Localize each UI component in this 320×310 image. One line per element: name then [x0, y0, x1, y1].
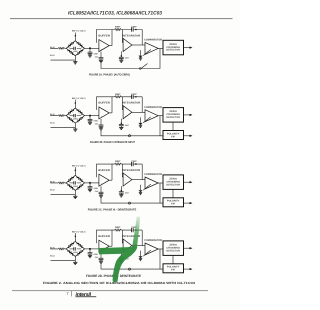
capacitor C1 junction to ground (row 3) [89, 183, 91, 187]
svg-text:IN LO: IN LO [50, 255, 55, 258]
svg-text:RINT: RINT [115, 93, 121, 96]
svg-text:CREF: CREF [94, 120, 99, 123]
capacitor CINT on top rail (row 3) [132, 162, 134, 166]
wire comparator feedback (row 1) [101, 48, 160, 68]
header rule [10, 18, 233, 19]
capacitor CAZ below buffer (row 2) [100, 119, 102, 125]
wire integrator input drop (row 3) [121, 164, 124, 177]
wire comparator feedback (row 3) [101, 183, 160, 203]
wire to reference (row 1) [74, 33, 76, 41]
wire IN HI input (row 2) [50, 115, 66, 117]
node top rail junction dot (row 2) [135, 96, 137, 98]
green marker digit 7 [99, 216, 140, 282]
svg-text:ZERO: ZERO [169, 244, 177, 247]
svg-text:IN LO: IN LO [50, 121, 55, 124]
wire bridge to buffer (row 1) [85, 47, 99, 49]
wire bridge to buffer (row 3) [85, 182, 99, 184]
capacitor CINT on top rail (row 4) [132, 228, 134, 232]
block zero crossing detector (row 2) [163, 108, 184, 123]
capacitor CREF inside bridge (row 2) [70, 115, 82, 117]
svg-text:IN LO: IN LO [50, 189, 55, 192]
svg-text:F/F: F/F [171, 203, 176, 206]
ground at comparator input (row 4) [138, 256, 142, 258]
svg-text:CREF: CREF [73, 185, 78, 188]
wire ZCD output arrow (row 3) [184, 181, 192, 183]
wire integrator input drop (row 1) [121, 30, 124, 43]
wire ZCD to polarity FF (row 4) [160, 255, 173, 269]
svg-text:FIGURE 2A. PHASE I (AUTO-ZERO: FIGURE 2A. PHASE I (AUTO-ZERO) [89, 74, 130, 77]
wire ZCD output arrow (row 2) [184, 114, 192, 116]
capacitor C2 below integrator (row 1) [121, 55, 123, 57]
node junction dot (row 3) [89, 182, 91, 184]
svg-text:CROSSING: CROSSING [166, 46, 180, 49]
svg-text:CROSSING: CROSSING [166, 113, 180, 116]
wire buffer output (row 1) [109, 45, 112, 47]
wire IN HI input (row 3) [50, 182, 66, 184]
wire bridge to buffer (row 2) [85, 115, 99, 117]
ground below C1 (row 3) [88, 190, 92, 192]
capacitor CREF inside bridge (row 4) [70, 248, 82, 250]
switch bridge SW1-SW4 diamond (row 4) [66, 241, 84, 256]
ground below bridge (row 1) [73, 62, 77, 64]
svg-text:INTEGRATOR: INTEGRATOR [122, 102, 140, 105]
wire top rail (row 3) [112, 164, 142, 180]
node junction dot (row 2) [89, 115, 91, 117]
svg-text:CINT: CINT [131, 160, 137, 163]
svg-text:INTEGRATOR: INTEGRATOR [122, 34, 140, 37]
svg-text:COMPARATOR: COMPARATOR [144, 239, 162, 242]
switch SW-DE at comparator input (row 1) [143, 50, 151, 56]
svg-text:RINT: RINT [115, 226, 121, 229]
node junction dot (row 1) [89, 47, 91, 49]
wire comparator feedback (row 2) [101, 116, 160, 136]
capacitor CINT on top rail (row 1) [132, 27, 134, 31]
node REF terminal dot (row 1) [75, 35, 77, 37]
wire buffer output (row 3) [109, 179, 112, 181]
svg-text:FIGURE 2. ANALOG SECTION OF I: FIGURE 2. ANALOG SECTION OF ICL8052/ICL8… [43, 281, 195, 285]
svg-text:ICL8052A/ICL71C03, ICL8068A/IC: ICL8052A/ICL71C03, ICL8068A/ICL71C03 [68, 11, 162, 17]
svg-text:CREF: CREF [73, 251, 78, 254]
switch SW-IN on input wire (row 2) [58, 115, 64, 117]
node REF terminal dot (row 4) [75, 236, 77, 238]
svg-text:RINT: RINT [115, 160, 121, 163]
wire comparator feedback (row 4) [101, 249, 160, 269]
svg-text:F/F: F/F [171, 135, 176, 138]
svg-text:FIGURE 2B. PHASE II INTEGRATE: FIGURE 2B. PHASE II INTEGRATE INPUT [90, 141, 135, 144]
wire buffer feedback loop (row 3) [97, 164, 113, 180]
wire top rail (row 2) [112, 97, 142, 113]
svg-text:ZERO: ZERO [169, 43, 177, 46]
ground below C1 (row 2) [88, 122, 92, 124]
capacitor C2 below integrator (row 4) [121, 256, 123, 258]
wire integrator output to comparator (row 3) [132, 179, 145, 181]
wire buffer output (row 4) [109, 245, 112, 247]
switch SW-DE at comparator input (row 4) [143, 250, 151, 256]
wire buffer feedback loop (row 1) [97, 30, 113, 46]
ground below C1 (row 1) [88, 55, 92, 57]
capacitor CAZ below buffer (row 1) [100, 52, 102, 58]
wire integrator output to comparator (row 2) [132, 111, 145, 113]
ground below C1 (row 4) [88, 256, 92, 258]
block zero crossing detector (row 4) [163, 241, 184, 256]
svg-text:DETECTOR: DETECTOR [166, 49, 180, 52]
wire bridge to buffer (row 4) [85, 248, 99, 250]
capacitor CAZ below buffer (row 4) [100, 252, 102, 258]
footer divider bar [70, 291, 73, 297]
wire integrator output to comparator (row 1) [132, 44, 145, 46]
wire integrator input drop (row 2) [121, 97, 124, 110]
switch SW-IN on input wire (row 4) [58, 248, 64, 250]
resistor RINT (row 3) [115, 163, 122, 165]
svg-text:RINT: RINT [115, 26, 121, 29]
capacitor C1 junction to ground (row 4) [89, 249, 91, 253]
svg-text:BUFFER: BUFFER [98, 235, 110, 238]
svg-text:COMPARATOR: COMPARATOR [144, 173, 162, 176]
svg-text:CROSSING: CROSSING [166, 246, 180, 249]
switch bridge SW1-SW4 diamond (row 3) [66, 175, 84, 190]
svg-text:DETECTOR: DETECTOR [166, 249, 180, 252]
capacitor CAZ below buffer (row 3) [100, 186, 102, 192]
ground below bridge (row 2) [73, 129, 77, 131]
resistor RINT (row 1) [115, 29, 122, 31]
wire to reference (row 4) [74, 233, 76, 241]
svg-text:CREF: CREF [73, 50, 78, 53]
svg-text:CREF: CREF [94, 253, 99, 256]
svg-text:REF (+1 VOLT): REF (+1 VOLT) [72, 30, 86, 33]
wire integrator input drop (row 4) [121, 230, 124, 243]
wire to reference (row 3) [74, 167, 76, 175]
wire IN LO (row 2) [51, 123, 76, 129]
wire polarity FF output arrow (row 2) [184, 135, 192, 137]
resistor RINT (row 4) [115, 229, 122, 231]
wire top rail (row 1) [112, 30, 142, 46]
block zero crossing detector (row 1) [163, 40, 184, 55]
block zero crossing detector (row 3) [163, 175, 184, 190]
capacitor C1 junction to ground (row 2) [89, 116, 91, 120]
switch SW-DE at comparator input (row 3) [143, 184, 151, 190]
capacitor C2 below integrator (row 3) [121, 190, 123, 192]
node top rail junction dot (row 4) [135, 229, 137, 231]
svg-text:CINT: CINT [131, 26, 137, 29]
svg-text:BUFFER: BUFFER [98, 169, 110, 172]
wire comparator output (row 2) [158, 115, 163, 117]
wire IN HI input (row 1) [50, 47, 66, 49]
svg-text:REF (+1 VOLT): REF (+1 VOLT) [72, 164, 86, 167]
svg-text:COMPARATOR: COMPARATOR [144, 106, 162, 109]
svg-text:CROSSING: CROSSING [166, 180, 180, 183]
svg-text:POLARITY: POLARITY [167, 132, 180, 135]
wire integrator output to comparator (row 4) [132, 245, 145, 247]
switch on feedback wire (row 3) [128, 202, 130, 204]
switch on feedback wire (row 1) [141, 64, 148, 69]
wire buffer output (row 2) [109, 112, 112, 114]
wire comparator output (row 3) [158, 182, 163, 184]
svg-text:POLARITY: POLARITY [167, 266, 180, 269]
block polarity flip-flop (row 4) [163, 264, 184, 273]
node top rail junction dot (row 3) [135, 163, 137, 165]
wire IN LO (row 1) [51, 56, 76, 62]
capacitor C2 below integrator (row 2) [121, 122, 123, 124]
wire IN LO (row 3) [51, 190, 76, 196]
wire comparator output (row 4) [158, 248, 163, 250]
svg-text:REF (+1 VOLT): REF (+1 VOLT) [72, 230, 86, 233]
ground below bridge (row 3) [73, 196, 77, 198]
node REF terminal dot (row 2) [75, 102, 77, 104]
svg-text:CINT: CINT [131, 93, 137, 96]
svg-text:DETECTOR: DETECTOR [166, 116, 180, 119]
capacitor C1 junction to ground (row 1) [89, 48, 91, 52]
switch on feedback wire (row 4) [128, 268, 130, 270]
wire buffer feedback loop (row 2) [97, 97, 113, 113]
block polarity flip-flop (row 3) [163, 198, 184, 207]
svg-text:BUFFER: BUFFER [98, 34, 110, 37]
ground at comparator input (row 3) [138, 190, 142, 192]
wire to reference (row 2) [74, 100, 76, 108]
wire buffer feedback loop (row 4) [97, 230, 113, 246]
resistor RINT (row 2) [115, 96, 122, 98]
block polarity flip-flop (row 2) [163, 131, 184, 140]
svg-text:CREF: CREF [73, 118, 78, 121]
switch SW-DE at comparator input (row 2) [143, 117, 151, 123]
wire ZCD output arrow (row 1) [184, 47, 192, 49]
svg-text:IN LO: IN LO [50, 54, 55, 57]
svg-text:CREF: CREF [94, 187, 99, 190]
wire polarity FF output arrow (row 4) [184, 268, 192, 270]
wire IN LO (row 4) [51, 256, 76, 262]
switch SW-IN on input wire (row 1) [58, 47, 64, 49]
capacitor CREF inside bridge (row 3) [70, 182, 82, 184]
svg-text:ZERO: ZERO [169, 110, 177, 113]
svg-text:DETECTOR: DETECTOR [166, 183, 180, 186]
svg-text:F/F: F/F [171, 269, 176, 272]
wire ZCD output arrow (row 4) [184, 247, 192, 249]
wire top rail (row 4) [112, 230, 142, 246]
svg-text:CREF: CREF [94, 52, 99, 55]
svg-text:COMPARATOR: COMPARATOR [144, 39, 162, 42]
footer rule [12, 289, 208, 292]
wire ZCD to polarity FF (row 2) [160, 122, 173, 136]
node REF terminal dot (row 3) [75, 170, 77, 172]
svg-text:REF (+1 VOLT): REF (+1 VOLT) [72, 97, 86, 100]
svg-text:BUFFER: BUFFER [98, 102, 110, 105]
wire IN HI input (row 4) [50, 248, 66, 250]
node top rail junction dot (row 1) [135, 29, 137, 31]
node junction dot (row 4) [89, 248, 91, 250]
switch bridge SW1-SW4 diamond (row 2) [66, 108, 84, 123]
capacitor CINT on top rail (row 2) [132, 95, 134, 99]
switch on feedback wire (row 2) [128, 135, 130, 137]
ground at comparator input (row 1) [138, 56, 142, 58]
switch bridge SW1-SW4 diamond (row 1) [66, 41, 84, 56]
svg-text:INTEGRATOR: INTEGRATOR [122, 169, 140, 172]
switch SW-IN on input wire (row 3) [58, 182, 64, 184]
ground below bridge (row 4) [73, 262, 77, 264]
svg-text:POLARITY: POLARITY [167, 200, 180, 203]
wire ZCD to polarity FF (row 3) [160, 189, 173, 203]
svg-text:ZERO: ZERO [169, 178, 177, 181]
wire polarity FF output arrow (row 3) [184, 202, 192, 204]
ground at comparator input (row 2) [138, 123, 142, 125]
wire comparator output (row 1) [158, 47, 163, 49]
svg-text:FIGURE 2C. PHASE III - DEINTE: FIGURE 2C. PHASE III - DEINTEGRATE [88, 208, 137, 211]
capacitor CREF inside bridge (row 1) [70, 47, 82, 49]
